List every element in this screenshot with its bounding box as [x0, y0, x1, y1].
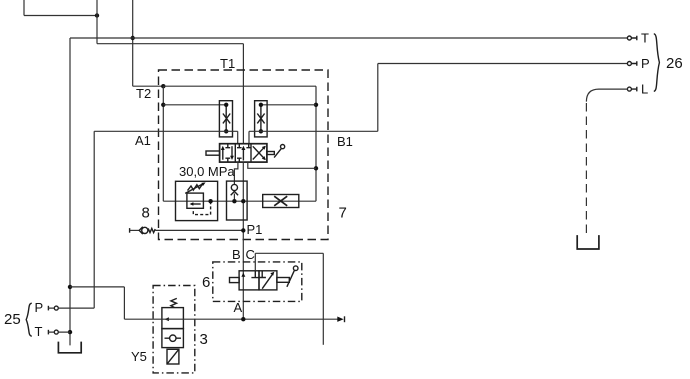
- tank symbol right: [577, 235, 599, 249]
- check cartridge CV2 X symbol: [257, 114, 264, 124]
- pilot valve V6 lever arm: [287, 271, 294, 287]
- relief valve RV1 pilot line (dashed): [193, 201, 210, 214]
- test coupling M1 ball: [142, 227, 148, 233]
- wire: left vertical x=70 down to tank: [69, 38, 71, 345]
- node A junction dot: [241, 317, 245, 321]
- directional valve V1 left box blocked port T marks: [225, 144, 230, 162]
- svg-text:6: 6: [202, 274, 210, 291]
- wire: central vertical drop x=243.4 to valve V1 top: [242, 44, 244, 144]
- wire: M1 line to node P1: [155, 229, 243, 231]
- wire: tank line T y=38 across sheet: [70, 37, 627, 39]
- svg-text:T2: T2: [136, 86, 151, 101]
- pilot valve V6 left box: [239, 271, 259, 290]
- wire: branch to check cartridge CV2 top: [261, 104, 316, 106]
- solenoid Y5 coil: [167, 349, 179, 364]
- wire: L line with corner arc: [586, 89, 627, 102]
- directional valve V1 box dividers: [235, 144, 251, 162]
- solenoid valve V3 flow arrow: [164, 317, 169, 321]
- orifice plate FR1 X symbol: [274, 196, 287, 206]
- relief valve RV1 adjustable spring: [188, 184, 203, 190]
- svg-text:7: 7: [339, 205, 347, 222]
- node junction at (234.4,201.2): [232, 199, 236, 203]
- node junction at (70,332.1): [68, 330, 72, 334]
- pilot valve V6 left pilot cap: [230, 278, 240, 283]
- wire: B1 riser x=377.8: [377, 64, 379, 132]
- wire: branch drop x=124.4: [123, 287, 125, 319]
- solenoid valve V3 check circle: [170, 335, 176, 341]
- node junction at (97,15.5): [95, 13, 99, 17]
- orifice plate FR1 body: [263, 195, 299, 208]
- directional valve V1 manual lever rod: [267, 152, 274, 155]
- port 25 brace: [26, 303, 32, 336]
- wire: branch to check cartridge CV1 top: [163, 104, 226, 106]
- pilot valve V6 right box: [259, 271, 277, 290]
- svg-text:3: 3: [200, 331, 208, 348]
- wire: vertical x=97 from top edge down: [96, 0, 98, 44]
- svg-text:8: 8: [142, 205, 150, 222]
- solenoid valve block 3 enclosure (dash-dot): [153, 286, 195, 373]
- pilot valve V6 up arrow on B line: [241, 273, 245, 277]
- svg-text:A1: A1: [135, 133, 151, 148]
- dashed enclosure box 7: [159, 70, 329, 240]
- directional valve V1 centre box up arrow: [242, 149, 244, 161]
- wire: port P25 stub: [48, 307, 94, 309]
- relief valve RV1 flow arrow: [191, 203, 200, 205]
- svg-text:30,0 MPa: 30,0 MPa: [179, 164, 235, 179]
- svg-text:T: T: [35, 324, 43, 339]
- pilot valve V6 lever knob: [293, 266, 298, 271]
- wire: C line drop x=323.3: [322, 253, 324, 344]
- wire: C line horizontal y=253.3: [255, 252, 323, 254]
- pilot valve V6 blocked port right box T mark: [259, 271, 266, 278]
- node junction at (316,168.3): [314, 166, 318, 170]
- directional valve V1 body: [220, 144, 267, 162]
- wire: manifold ring right vertical x=316: [315, 86, 317, 201]
- svg-text:P1: P1: [247, 222, 263, 237]
- port L26 tick: [631, 87, 636, 92]
- wire: T2 horizontal y=86.2: [133, 85, 164, 87]
- check cartridge CV2 poppet line: [260, 105, 262, 132]
- node junction at (316,105.5): [314, 103, 318, 107]
- svg-text:A: A: [234, 300, 243, 315]
- svg-text:T1: T1: [220, 56, 235, 71]
- port T26 circle: [627, 36, 631, 40]
- wire: V1 bottom port to check valve drop: [234, 162, 238, 184]
- directional valve V1 left box down arrow: [231, 146, 233, 157]
- node P1 junction dot: [241, 228, 245, 232]
- wire: B1 drop x=249 to valve V1: [248, 131, 250, 143]
- check valve CV3 seat: [231, 191, 238, 195]
- wire: through valve V3 to node A: [162, 318, 338, 320]
- wire: manifold ring top y=86.2: [163, 85, 316, 87]
- pilot valve V6 diagonal flow arrow: [262, 274, 272, 289]
- wire: A1 drop x=237.7 to valve V1: [237, 131, 239, 143]
- check valve CV3 housing: [227, 181, 248, 220]
- tank symbol left: [58, 342, 81, 353]
- relief valve RV1 element square: [187, 193, 204, 208]
- connection arrow at line end: [337, 317, 343, 322]
- wire: coupling M1 stub: [130, 229, 140, 231]
- wire: P line y=63.5 to port: [378, 63, 628, 65]
- wire: vertical x=132.7 from top edge: [132, 0, 134, 86]
- solenoid valve V3 upper box: [162, 308, 184, 329]
- wire: L drain dashed drop: [585, 103, 587, 237]
- check valve CV3 ball: [231, 184, 237, 190]
- test coupling M1 spring: [148, 228, 155, 232]
- port T26 tick: [631, 36, 636, 41]
- svg-text:L: L: [641, 82, 648, 97]
- svg-text:25: 25: [4, 311, 21, 328]
- pilot valve block 6 enclosure (dash-dot): [213, 262, 302, 302]
- check cartridge CV1 body: [219, 101, 232, 137]
- directional valve V1 right box crossed arrows: [253, 146, 265, 159]
- node junction at (70,286.9): [68, 285, 72, 289]
- wire: A1 line y=131.3 from x=94.2 through CV1: [94, 130, 238, 132]
- port T25 tick: [47, 330, 49, 335]
- node junction at (163.3,86.2): [161, 84, 165, 88]
- directional valve V1 left pilot cap: [206, 151, 220, 155]
- svg-text:B1: B1: [337, 134, 353, 149]
- svg-text:Y5: Y5: [131, 349, 147, 364]
- node junction at (243.3,201.2): [241, 199, 245, 203]
- relief valve RV1 housing: [176, 181, 218, 220]
- wire: supply branch y=286.9: [70, 286, 124, 288]
- wire: CV3 seat to loop line: [233, 194, 235, 202]
- port P26 circle: [627, 62, 631, 66]
- check cartridge CV1 top pin dot: [224, 103, 228, 107]
- svg-text:B: B: [232, 247, 241, 262]
- check cartridge CV2 body: [255, 101, 268, 137]
- port T25 circle: [54, 330, 58, 334]
- node junction T-line at (132.7,38): [131, 36, 135, 40]
- directional valve V1 centre box blocked port T marks: [237, 144, 251, 162]
- solenoid valve V3 spring: [171, 298, 177, 307]
- solenoid valve V3 check seat lines: [165, 337, 182, 339]
- directional valve V1 manual lever knob: [281, 145, 285, 149]
- wire: manifold ring left vertical x=163.3: [162, 86, 164, 201]
- wire: top stub horizontal y=15.5: [24, 15, 97, 17]
- solenoid Y5 diagonal: [167, 350, 178, 364]
- port 26 brace: [654, 34, 660, 92]
- check cartridge CV2 bottom pin dot: [259, 129, 263, 133]
- directional valve V1 manual lever arm: [274, 148, 282, 157]
- wire: horizontal y=43.7 to central drop: [97, 43, 243, 45]
- pilot valve V6 lever rod: [277, 278, 289, 283]
- svg-text:T: T: [641, 31, 649, 46]
- test coupling M1 check seat: [139, 227, 143, 234]
- pilot valve V6 blocked port C (T mark): [251, 271, 259, 278]
- test coupling M1 port tick: [129, 228, 131, 233]
- directional valve V1 left box up arrow: [222, 149, 224, 160]
- svg-text:C: C: [246, 247, 255, 262]
- check cartridge CV1 poppet line: [225, 105, 227, 132]
- wire: B1 line y=131.3 through CV2 to riser: [249, 130, 378, 132]
- node junction pilot tap (210.6,201.2): [208, 199, 212, 203]
- wire: manifold ring bottom y=201.2: [163, 200, 316, 202]
- wire: A1 vertical x=94.2 down to port P25: [93, 131, 95, 308]
- check cartridge CV1 bottom pin dot: [224, 129, 228, 133]
- port L26 circle: [627, 87, 631, 91]
- node junction at (163.3,105): [161, 103, 165, 107]
- wire: port T25 stub: [48, 331, 70, 333]
- check cartridge CV1 X symbol: [223, 114, 230, 124]
- svg-text:26: 26: [666, 55, 683, 72]
- wire: V1 bottom port to ring right y=168.3: [248, 162, 316, 168]
- port P26 tick: [631, 61, 636, 66]
- svg-text:P: P: [35, 300, 44, 315]
- svg-text:P: P: [641, 56, 650, 71]
- wire: top stub vertical x=24: [23, 0, 25, 16]
- solenoid valve V3 lower box: [162, 329, 184, 348]
- wire: feed into valve V3 y=319.2: [124, 318, 161, 320]
- wire: C line riser: [254, 253, 256, 270]
- check cartridge CV2 top pin dot: [259, 103, 263, 107]
- wire: central vertical x=243.3 from V1 down to node A: [242, 162, 244, 319]
- port P25 circle: [54, 306, 58, 310]
- port P25 tick: [47, 306, 49, 311]
